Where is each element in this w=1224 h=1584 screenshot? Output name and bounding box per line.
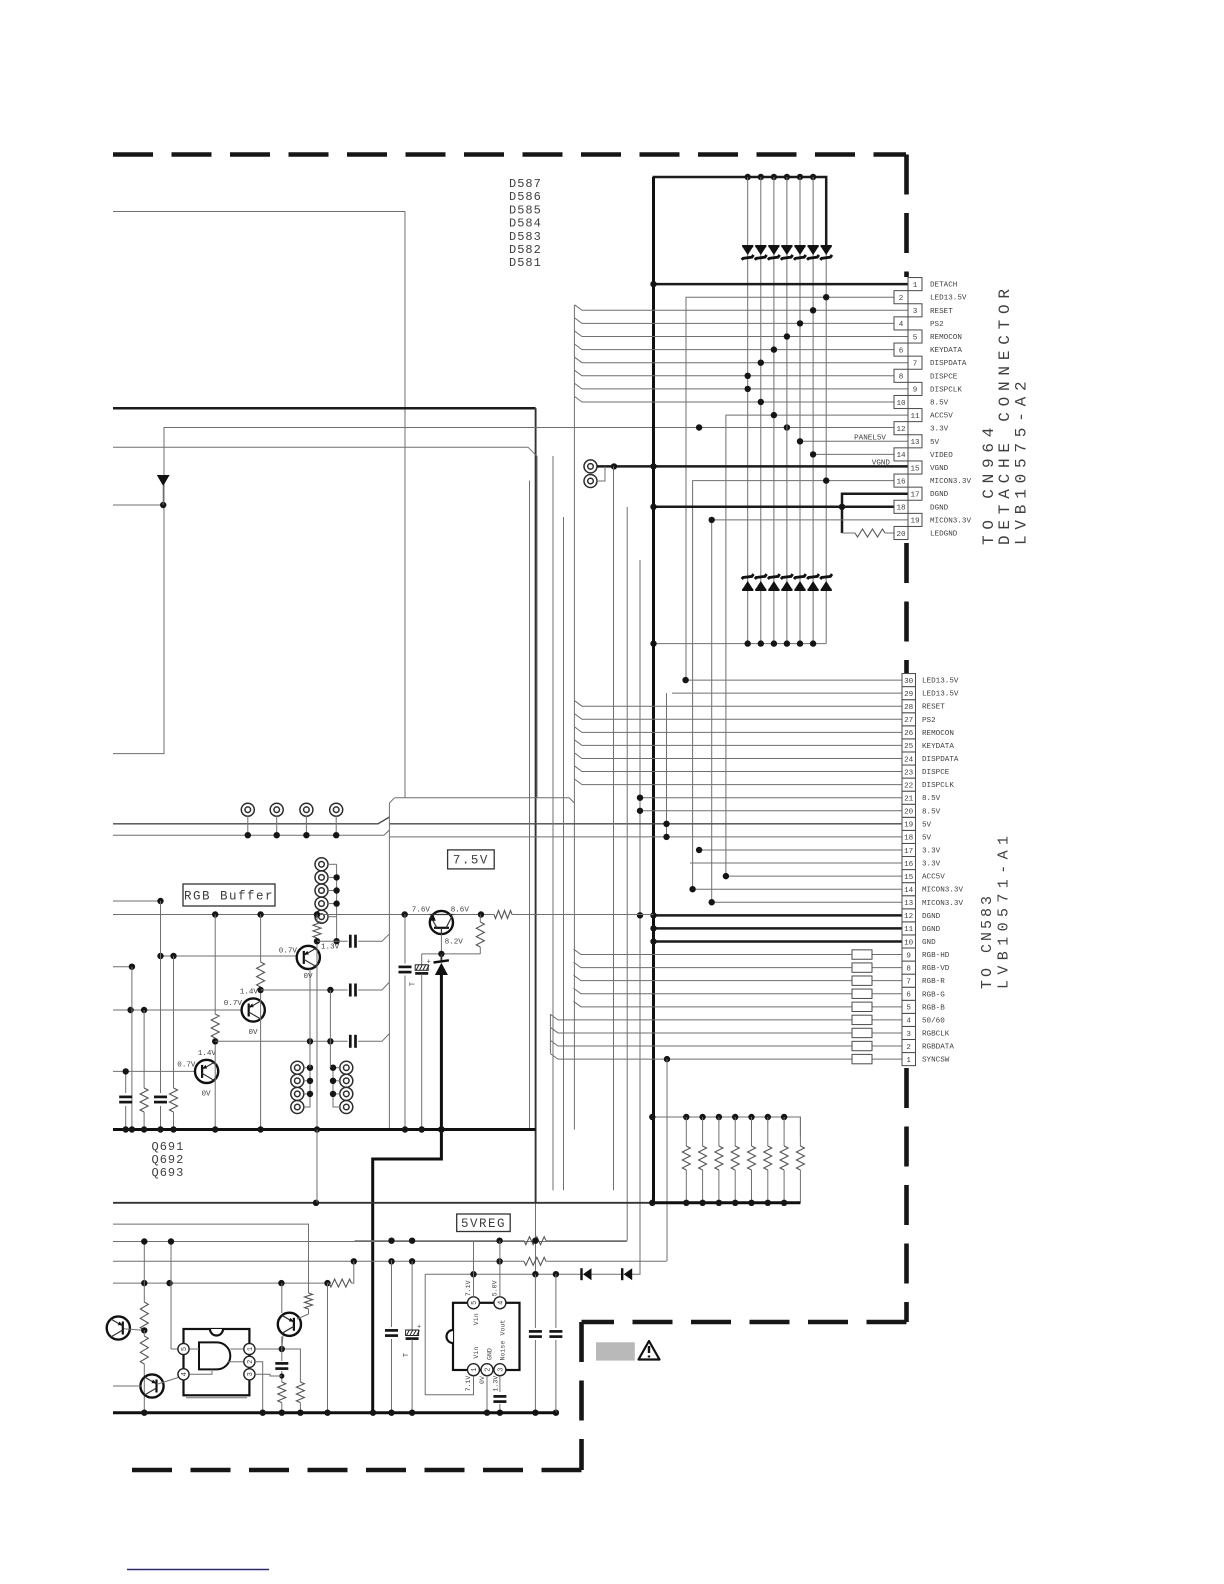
wire IC pin2 down <box>255 1362 263 1413</box>
wire vertical x529.5 MICON link <box>529 481 531 1130</box>
svg-text:16: 16 <box>896 478 906 486</box>
svg-text:8: 8 <box>899 374 904 382</box>
svg-text:RGB Buffer: RGB Buffer <box>184 890 274 904</box>
wire CN583 pin20 8.5V <box>640 810 902 812</box>
test point TP VGND upper <box>584 460 597 473</box>
svg-text:PANEL5V: PANEL5V <box>854 434 886 442</box>
svg-text:RGB-R: RGB-R <box>922 978 945 986</box>
svg-text:DISPDATA: DISPDATA <box>930 360 967 368</box>
svg-text:VGND: VGND <box>930 465 949 473</box>
svg-text:LED13.5V: LED13.5V <box>930 295 967 303</box>
wire CN583 pins9-1 with ferrite beads <box>550 949 902 1064</box>
label Q691 Q692 Q693 <box>152 1140 185 1180</box>
junction dots VGND <box>611 463 657 469</box>
junction dots y1283.1 <box>141 1280 331 1286</box>
svg-text:1: 1 <box>247 1347 255 1351</box>
transistor Q bottom second <box>113 1374 178 1397</box>
wire output row R <box>317 934 389 947</box>
svg-text:2: 2 <box>899 295 904 303</box>
wire vertical x215.2 <box>214 915 216 1130</box>
svg-text:23: 23 <box>904 769 914 777</box>
svg-text:RGB-B: RGB-B <box>922 1004 945 1012</box>
svg-text:3.3V: 3.3V <box>922 861 941 869</box>
IC U5VREG pin1 <box>468 1364 480 1376</box>
label 7.6V <box>412 907 431 915</box>
wire CN583 pin14 MICON3.3V <box>693 888 902 890</box>
wire base Q691 <box>161 955 297 957</box>
svg-text:D584: D584 <box>509 217 542 231</box>
resistor R chain x144.3 lower <box>140 1330 148 1413</box>
resistor R x173.5 <box>170 956 178 1130</box>
wire CN583 pin11 DGND thick <box>654 927 903 930</box>
svg-text:11: 11 <box>904 926 914 934</box>
wire vertical x131.9 <box>131 967 133 1130</box>
junction dot pin11 ladder <box>771 412 777 418</box>
svg-text:0V: 0V <box>201 1090 211 1098</box>
svg-text:DISPCLK: DISPCLK <box>930 386 962 394</box>
junction dots y1260.4 <box>351 1258 503 1264</box>
svg-text:5.0V: 5.0V <box>491 1280 498 1296</box>
junction dot pin16 ladder <box>823 477 829 483</box>
svg-text:Q693: Q693 <box>152 1166 185 1180</box>
junction dot syncsw <box>664 1056 670 1062</box>
svg-text:14: 14 <box>904 887 914 895</box>
junction dots DGND elbow <box>650 504 845 510</box>
svg-text:5: 5 <box>181 1347 189 1351</box>
junction dot r692 <box>257 987 263 993</box>
junction dot pin13cn583 <box>709 899 715 905</box>
junction dot row G <box>327 987 333 993</box>
svg-text:1.3V: 1.3V <box>492 1376 499 1392</box>
svg-text:28: 28 <box>904 704 914 712</box>
diode D584 <box>781 245 793 260</box>
wire CN583 pin30 LED13.5V <box>686 679 902 681</box>
diode D581 <box>742 245 754 260</box>
svg-text:DISPCE: DISPCE <box>922 769 950 777</box>
svg-text:1.4V: 1.4V <box>198 1050 217 1058</box>
label TO CN964 rotated <box>980 422 998 545</box>
svg-text:9: 9 <box>913 387 918 395</box>
label box 5VREG <box>457 1214 511 1232</box>
svg-text:9: 9 <box>906 952 911 960</box>
label LVB10575-A2 rotated <box>1013 376 1031 545</box>
wire vertical x626.7 to bottom <box>626 507 628 1241</box>
capacitor C electrolytic 7.5V <box>410 954 431 1130</box>
svg-text:DETACHE CONNECTOR: DETACHE CONNECTOR <box>996 283 1014 545</box>
test points TP stack lower-left <box>291 1061 310 1113</box>
junction dot pin13 <box>797 438 803 444</box>
connector CN583 pin boxes and labels <box>902 674 963 1066</box>
junction dots 8.5V pair <box>637 795 643 814</box>
IC U5VREG pin3 <box>494 1364 506 1376</box>
wire y1240.7 <box>355 1237 628 1245</box>
svg-text:5V: 5V <box>922 821 932 829</box>
svg-text:Q692: Q692 <box>152 1153 185 1167</box>
transistor Q692 <box>242 998 265 1021</box>
svg-text:21: 21 <box>904 796 914 804</box>
transistor Q693 <box>195 1060 218 1083</box>
svg-text:DISPCLK: DISPCLK <box>922 782 954 790</box>
IC U5V gate leads <box>190 1349 244 1374</box>
svg-text:7: 7 <box>913 361 918 369</box>
junction dots out caps <box>497 1410 559 1416</box>
wire CN583 pin19 5V from left edge <box>113 817 902 824</box>
resistor R x308.5 base <box>297 1293 313 1319</box>
svg-text:5: 5 <box>471 1301 479 1305</box>
svg-text:LED13.5V: LED13.5V <box>922 691 959 699</box>
junction dots 5V links <box>663 821 669 841</box>
svg-text:T: T <box>410 982 418 986</box>
svg-text:MICON3.3V: MICON3.3V <box>922 900 963 908</box>
diode D582 <box>755 245 767 260</box>
svg-text:Noise: Noise <box>499 1341 506 1361</box>
svg-text:14: 14 <box>896 452 906 460</box>
wire CN583 pin15 ACC5V <box>726 875 902 877</box>
wire Q bottom mid emitter <box>282 1336 283 1350</box>
diode D585 <box>794 245 806 260</box>
svg-text:VIDEO: VIDEO <box>930 452 953 460</box>
junction dots ladder-bottom pins9-10 <box>745 386 765 406</box>
wire vertical x666.5 5V link <box>666 693 668 837</box>
transistor Q bottom-left edge <box>107 1316 145 1339</box>
wire vertical x310 from Q691 <box>309 969 311 1068</box>
svg-text:3: 3 <box>913 308 918 316</box>
wire CN964 pin1 DETACH thick <box>654 283 909 286</box>
capacitor C noise pin3 <box>493 1396 506 1412</box>
capacitor C out x535.4 <box>529 1274 542 1413</box>
capacitor C x281.8 <box>275 1337 288 1383</box>
svg-text:Vin: Vin <box>473 1347 480 1359</box>
svg-text:4: 4 <box>497 1301 505 1305</box>
svg-text:12: 12 <box>904 913 914 921</box>
svg-text:0.7V: 0.7V <box>279 947 298 955</box>
diode D587 <box>820 245 832 260</box>
resistor R chain x144.3 upper <box>140 1242 148 1331</box>
svg-text:0V: 0V <box>479 1376 486 1384</box>
svg-text:SYNCSW: SYNCSW <box>922 1057 950 1065</box>
IC U5VREG outline <box>447 1303 520 1370</box>
label values Q692 <box>224 989 259 1038</box>
redacted label block <box>596 1342 635 1360</box>
svg-text:DGND: DGND <box>922 926 941 934</box>
svg-text:D587: D587 <box>509 177 542 191</box>
wire IC pin5 link <box>171 1242 178 1350</box>
wire CN583 pin17 3.3V <box>699 849 902 851</box>
resistor R LEDGND <box>842 529 894 537</box>
wire base Q693 <box>113 1070 195 1072</box>
sub-board outline box <box>389 798 574 1130</box>
wire from left edge to node at x405 <box>113 211 405 213</box>
wire y1260.4 with resistor <box>113 1257 667 1265</box>
wire LED ladder verticals <box>748 177 827 644</box>
footer link line <box>127 1569 269 1571</box>
wire vertical x330.4 <box>329 990 331 1068</box>
wire regulator emitter <box>422 934 481 954</box>
capacitor C filter <box>399 915 412 1130</box>
capacitor C electrolytic x412 <box>403 1261 421 1412</box>
svg-text:50/60: 50/60 <box>922 1017 945 1025</box>
svg-text:4: 4 <box>181 1372 189 1376</box>
svg-text:DGND: DGND <box>922 913 941 921</box>
wire left edge stub y966.7 <box>113 966 132 968</box>
svg-text:6: 6 <box>899 347 904 355</box>
svg-text:25: 25 <box>904 743 914 751</box>
svg-text:0V: 0V <box>248 1029 258 1037</box>
label PANEL5V <box>854 434 886 442</box>
svg-text:4: 4 <box>899 321 904 329</box>
junction dots base Q692 <box>127 1007 147 1013</box>
svg-text:5: 5 <box>906 1005 911 1013</box>
junction dot zener bus <box>438 1126 445 1133</box>
svg-text:LED13.5V: LED13.5V <box>922 678 959 686</box>
svg-text:Vout: Vout <box>499 1320 506 1336</box>
svg-text:RGBCLK: RGBCLK <box>922 1030 950 1038</box>
junction dots y1274.2 <box>470 1271 559 1277</box>
svg-text:8.5V: 8.5V <box>930 400 949 408</box>
wire resistor horizontal x329-351 <box>328 1261 354 1412</box>
svg-text:RGBDATA: RGBDATA <box>922 1044 954 1052</box>
junction dots on top LED bus <box>745 174 817 180</box>
svg-text:VGND: VGND <box>872 460 891 468</box>
label box 7.5V <box>448 850 495 869</box>
svg-text:LVB10571-A1: LVB10571-A1 <box>996 831 1013 989</box>
svg-text:10: 10 <box>904 939 914 947</box>
svg-text:REMOCON: REMOCON <box>930 334 962 342</box>
svg-text:5VREG: 5VREG <box>461 1217 506 1231</box>
svg-text:8.5V: 8.5V <box>922 795 941 803</box>
dashed boundary top edge <box>113 152 906 157</box>
svg-text:5: 5 <box>913 334 918 342</box>
wire CN583 pin13 MICON3.3V <box>712 901 902 903</box>
wire left edge stub y901 <box>113 900 161 902</box>
wire 3.3V from left riser x164 <box>113 428 894 754</box>
svg-text:D586: D586 <box>509 190 542 204</box>
svg-text:7.1V: 7.1V <box>465 1280 472 1296</box>
wire stub with junction to diode D <box>113 504 163 506</box>
svg-text:MICON3.3V: MICON3.3V <box>930 478 971 486</box>
svg-text:DETACH: DETACH <box>930 282 957 290</box>
svg-text:15: 15 <box>904 874 914 882</box>
svg-text:1.3V: 1.3V <box>321 944 340 952</box>
svg-text:DISPDATA: DISPDATA <box>922 756 959 764</box>
wire vertical x563.5 <box>563 517 565 1190</box>
junction dot y901 <box>157 898 163 904</box>
label 8.6V <box>451 907 470 915</box>
wire vertical x281.8 upper <box>281 1283 283 1313</box>
wire output row G <box>261 983 389 997</box>
wire top LED anode bus <box>653 177 827 246</box>
svg-text:3.3V: 3.3V <box>922 847 941 855</box>
wire CN964 pin13 5V PANEL5V <box>800 440 908 442</box>
IC U5VREG pin2 <box>481 1364 493 1376</box>
svg-text:KEYDATA: KEYDATA <box>922 743 954 751</box>
svg-text:19: 19 <box>910 518 920 526</box>
IC U5V pin1 <box>244 1343 255 1354</box>
svg-text:6: 6 <box>906 992 911 1000</box>
junction dot pin5 link top <box>168 1238 174 1244</box>
junction dots staircase CN964 pins3-8 <box>745 307 817 379</box>
diode D zener 8.2V <box>434 954 449 975</box>
label box RGB Buffer <box>183 884 275 906</box>
warning triangle icon <box>639 1341 660 1360</box>
svg-text:29: 29 <box>904 691 914 699</box>
wire bundle CN964 pins3-10 with bevels <box>574 305 908 1130</box>
wire vertical x160.5 <box>154 901 167 1130</box>
junction dots stack lower-right <box>330 1065 336 1098</box>
label values Q691 <box>279 947 313 981</box>
dashed boundary inner vertical <box>579 1322 584 1470</box>
wire CN583 pin12 DGND thick <box>654 914 903 917</box>
label VGND left of pin15 <box>872 460 891 468</box>
dashed boundary bottom edge left <box>128 1468 582 1473</box>
svg-text:RESET: RESET <box>922 704 945 712</box>
label DETACHE CONNECTOR rotated <box>996 283 1014 545</box>
svg-text:5V: 5V <box>922 834 932 842</box>
junction dots y1240.7 <box>388 1238 538 1244</box>
diode D rectifier left <box>582 1268 592 1280</box>
wire U5VREG pin5 riser <box>473 1241 475 1297</box>
wire rail y914.5 <box>113 914 429 916</box>
wire vertical x260.6 <box>260 915 262 1130</box>
svg-text:18: 18 <box>896 505 906 513</box>
svg-text:0V: 0V <box>303 973 313 981</box>
wire CN583 pin10 GND thick <box>654 940 903 943</box>
IC U5V pin4 <box>178 1369 189 1380</box>
svg-text:D581: D581 <box>509 256 542 270</box>
wire CN583 pin16 3.3V <box>690 862 902 864</box>
svg-text:DISPCE: DISPCE <box>930 373 958 381</box>
svg-text:GND: GND <box>487 1348 494 1360</box>
svg-text:KEYDATA: KEYDATA <box>930 347 962 355</box>
wire vertical x535.6 long right-side feeder <box>535 408 537 1274</box>
svg-text:0.7V: 0.7V <box>177 1061 196 1069</box>
diode D541 top-left <box>157 473 170 506</box>
junction dot diode stub <box>160 502 166 508</box>
svg-text:26: 26 <box>904 730 914 738</box>
wire loop around U5VREG pin1 <box>425 1274 473 1395</box>
svg-text:1: 1 <box>471 1368 479 1372</box>
svg-text:T: T <box>403 1353 411 1357</box>
svg-text:17: 17 <box>904 848 913 856</box>
svg-text:+: + <box>427 958 431 966</box>
svg-text:22: 22 <box>904 782 914 790</box>
svg-text:3.3V: 3.3V <box>930 426 949 434</box>
wire y1224.1 <box>113 1224 309 1293</box>
svg-text:PS2: PS2 <box>922 717 936 725</box>
wire vertical x317 <box>316 915 318 1130</box>
svg-text:1: 1 <box>913 282 918 290</box>
test points TP row of four <box>241 803 342 835</box>
svg-text:ACC5V: ACC5V <box>930 413 953 421</box>
svg-text:5V: 5V <box>930 439 940 447</box>
junction dots bottom rail <box>141 1410 490 1416</box>
svg-text:Q691: Q691 <box>152 1140 185 1154</box>
IC U5VREG pin5 <box>468 1297 480 1309</box>
junction dot pin15cn583 <box>723 873 729 879</box>
svg-text:13: 13 <box>910 439 920 447</box>
wire vertical x317 lower <box>316 1130 318 1203</box>
wire CN583 pin21 8.5V <box>640 797 902 799</box>
junction dot r693 <box>212 1038 218 1044</box>
svg-text:RGB-G: RGB-G <box>922 991 945 999</box>
wire thick 8.5V feed from left edge <box>113 407 536 410</box>
svg-text:DGND: DGND <box>930 504 949 512</box>
svg-text:3: 3 <box>497 1368 505 1372</box>
wire vertical x405 down to RGB box <box>404 212 406 798</box>
svg-text:MICON3.3V: MICON3.3V <box>922 887 963 895</box>
capacitor C out x555.9 <box>549 1274 562 1413</box>
resistor R 8.6V load <box>476 915 484 954</box>
junction dot pin1 net <box>279 1346 285 1352</box>
svg-text:7.1V: 7.1V <box>465 1376 472 1392</box>
svg-text:D585: D585 <box>509 203 542 217</box>
resistor R x281.8 <box>278 1382 286 1413</box>
wire CN964 pin2 LED13.5V with riser x686 <box>686 297 894 680</box>
dashed boundary bottom edge right <box>582 1320 907 1325</box>
svg-text:7.5V: 7.5V <box>453 854 489 868</box>
junction dot pin17 <box>696 847 702 853</box>
junction dots rail y914.5 <box>212 911 408 917</box>
junction dot below cap <box>279 1373 284 1378</box>
transistor Q regulator 7.5V <box>429 911 454 934</box>
connector CN964 pin boxes and labels <box>894 278 971 540</box>
svg-text:2: 2 <box>485 1368 493 1372</box>
wire thick bottom ground rail <box>113 1411 556 1414</box>
svg-text:2: 2 <box>906 1044 911 1052</box>
resistor R x300.4 <box>296 1382 304 1413</box>
wire CN964 pin11 ACC5V with riser x725.9 <box>726 415 908 876</box>
junction dot pin2 ladder <box>823 294 829 300</box>
wire IC pin3 jog <box>255 1374 282 1376</box>
svg-text:2: 2 <box>247 1360 255 1364</box>
junction dots on LED collect bus <box>650 640 816 646</box>
junction dots stack lower-left <box>307 1065 313 1098</box>
resistor R Q691 bias <box>313 921 340 952</box>
svg-text:1: 1 <box>906 1057 911 1065</box>
diode lower row D group cathode <box>742 574 832 591</box>
wire 8.6V line with resistor <box>454 911 654 919</box>
junction dot 8.6V <box>478 911 484 917</box>
svg-text:ACC5V: ACC5V <box>922 874 945 882</box>
junction dot r691 <box>314 938 320 944</box>
svg-text:7: 7 <box>906 978 911 986</box>
svg-text:3: 3 <box>906 1031 911 1039</box>
svg-text:MICON3.3V: MICON3.3V <box>930 517 971 525</box>
wire bundle CN583 pins28-22 with bevels <box>575 701 902 785</box>
svg-text:RESET: RESET <box>930 308 953 316</box>
svg-text:DGND: DGND <box>930 491 949 499</box>
svg-text:RGB-VD: RGB-VD <box>922 965 950 973</box>
svg-text:+: + <box>417 1324 421 1332</box>
IC U5V gate symbol <box>199 1342 230 1369</box>
wire vertical x639.5 <box>639 560 641 1274</box>
junction dot pin1 bus <box>650 281 656 287</box>
test points TP stack lower-right <box>333 1061 353 1113</box>
svg-text:30: 30 <box>904 678 914 686</box>
svg-text:15: 15 <box>910 465 920 473</box>
svg-text:20: 20 <box>904 809 914 817</box>
svg-text:1.4V: 1.4V <box>240 989 259 997</box>
label D581-D587 <box>509 177 542 270</box>
wire CN964 pin19 MICON3.3V riser x711.7 <box>712 520 908 902</box>
svg-text:10: 10 <box>896 400 906 408</box>
wire y447 from left edge with bevel <box>113 447 537 798</box>
svg-text:18: 18 <box>904 835 914 843</box>
svg-text:Vin: Vin <box>473 1313 480 1325</box>
svg-text:0.7V: 0.7V <box>224 1000 243 1008</box>
svg-text:3: 3 <box>247 1372 255 1376</box>
wire vertical x125.7 with cap <box>119 1071 132 1129</box>
